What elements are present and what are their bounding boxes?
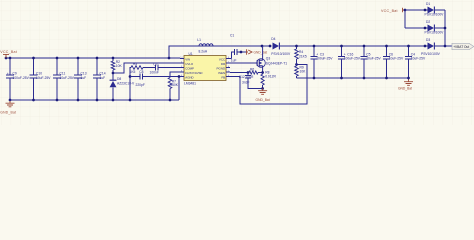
resistor R9 [295, 65, 306, 78]
wire FB loop [230, 63, 307, 104]
ground GND_Bat at R8 [256, 89, 270, 102]
svg-text:ISEN: ISEN [218, 71, 225, 75]
svg-text:U1: U1 [189, 52, 193, 56]
svg-text:UVLO: UVLO [185, 62, 194, 66]
wire AGND return [178, 77, 180, 101]
capacitor C4 [405, 45, 426, 78]
svg-text:L1: L1 [197, 38, 201, 42]
svg-text:GND_Bat: GND_Bat [256, 98, 270, 102]
port +VBAT Out [452, 43, 474, 49]
capacitor C6 [383, 45, 404, 80]
resistor R8 sense [261, 70, 276, 89]
capacitor C1 [230, 33, 247, 62]
wire VCC_Bat input rail [5, 57, 180, 60]
svg-text:AZ23C18-V: AZ23C18-V [117, 82, 135, 86]
resistor R5 [130, 62, 144, 74]
svg-text:PSV10/100V: PSV10/100V [421, 52, 441, 56]
diode D2 [405, 20, 445, 34]
diode D3 [421, 38, 452, 56]
svg-text:D1: D1 [426, 2, 430, 6]
svg-text:3n3F: 3n3F [242, 80, 250, 84]
ground GND_Bat output [398, 77, 413, 91]
svg-text:VCC_Bat: VCC_Bat [0, 50, 17, 54]
capacitor C11 [53, 57, 75, 102]
wire riser to inductor [169, 46, 199, 58]
svg-text:D2: D2 [426, 20, 430, 24]
svg-text:GND_Bat: GND_Bat [254, 50, 268, 54]
capacitor C10 [30, 57, 52, 102]
svg-text:SQJ443EP-T1: SQJ443EP-T1 [266, 61, 287, 65]
capacitor C3 [310, 45, 333, 80]
svg-text:R4: R4 [299, 50, 303, 54]
svg-text:10uF-25V: 10uF-25V [36, 76, 51, 80]
transistor Q3 [230, 46, 287, 73]
wire diode output bus [444, 10, 447, 47]
svg-text:FA/SYNC/SD: FA/SYNC/SD [185, 71, 202, 75]
svg-text:0.012R: 0.012R [265, 74, 276, 78]
svg-text:100uF-25V: 100uF-25V [13, 76, 30, 80]
svg-text:+VBAT Out: +VBAT Out [453, 45, 469, 49]
diode D1 [405, 2, 445, 16]
svg-text:D8: D8 [117, 77, 121, 81]
svg-text:PGND: PGND [217, 67, 227, 71]
svg-text:1uF: 1uF [231, 59, 237, 63]
capacitor C14 [93, 57, 106, 102]
capacitor C13 [74, 57, 87, 102]
capacitor C16 [338, 45, 361, 80]
power port GND_Bat at C1 [247, 49, 268, 55]
svg-text:+: + [7, 72, 9, 76]
svg-text:1uF: 1uF [100, 76, 106, 80]
wire diode input bus [404, 9, 407, 28]
svg-text:21K5: 21K5 [299, 54, 307, 58]
svg-text:Q3: Q3 [266, 56, 271, 60]
wire COMP [158, 67, 180, 69]
svg-text:100nF: 100nF [150, 71, 159, 75]
resistor R7 [168, 72, 180, 101]
ground GND_Bat input [0, 100, 16, 114]
inductor L1 [168, 38, 213, 59]
wire comp ground leg [129, 68, 132, 102]
svg-text:C7: C7 [153, 62, 157, 66]
svg-text:AGND: AGND [185, 76, 193, 80]
svg-text:COMP: COMP [185, 67, 194, 71]
capacitor C7 [143, 62, 159, 74]
svg-text:C1: C1 [230, 33, 234, 37]
op-amp U1 LM3481 controller [180, 52, 230, 86]
power port VCC_Bat top [381, 8, 405, 13]
svg-text:PSV10/100V: PSV10/100V [425, 13, 445, 17]
power port VCC_Bat input [0, 50, 17, 58]
svg-text:PSV10/100V: PSV10/100V [425, 31, 445, 35]
capacitor C5 [360, 45, 381, 80]
svg-text:R6: R6 [250, 68, 254, 72]
svg-text:FB: FB [221, 76, 225, 80]
svg-text:10uF-25V: 10uF-25V [60, 76, 75, 80]
svg-text:D4: D4 [271, 37, 275, 41]
svg-text:10uF-25V: 10uF-25V [389, 56, 404, 60]
svg-text:560K: 560K [170, 83, 179, 87]
diode D4 [269, 37, 428, 56]
svg-text:GND_Bat: GND_Bat [398, 87, 412, 91]
svg-text:10K: 10K [116, 64, 123, 68]
wire UVLO tap [112, 63, 180, 74]
svg-text:10uF-25V: 10uF-25V [411, 56, 426, 60]
resistor R4 [295, 45, 307, 66]
svg-text:100uF-25V: 100uF-25V [344, 56, 361, 60]
resistor R2 [111, 57, 122, 81]
svg-text:10uF-25V: 10uF-25V [366, 56, 381, 60]
capacitor C9 [6, 57, 30, 102]
svg-text:10K: 10K [300, 69, 307, 73]
svg-text:VIN: VIN [185, 58, 190, 62]
svg-text:PSV10/100V: PSV10/100V [271, 52, 291, 56]
svg-text:C8: C8 [139, 70, 143, 74]
svg-text:VCC_Bat: VCC_Bat [381, 9, 398, 13]
capacitor C12 [239, 73, 263, 89]
wire switch rail [213, 45, 272, 48]
zener diode D8 [110, 77, 135, 101]
svg-text:1uF: 1uF [81, 76, 87, 80]
capacitor C8 [130, 70, 180, 87]
wire GND bottom rail [10, 99, 179, 101]
svg-text:100uF-25V: 100uF-25V [316, 56, 333, 60]
svg-text:220pF: 220pF [136, 83, 145, 87]
svg-text:GND_Bat: GND_Bat [0, 110, 16, 114]
svg-text:LM3481: LM3481 [184, 81, 196, 85]
svg-text:VCC: VCC [219, 58, 226, 62]
svg-text:8.2uH: 8.2uH [199, 50, 208, 54]
svg-text:R5: R5 [133, 62, 137, 66]
wire output ground rail [297, 77, 409, 79]
resistor R6 100R [230, 68, 264, 80]
svg-text:D3: D3 [426, 38, 430, 42]
